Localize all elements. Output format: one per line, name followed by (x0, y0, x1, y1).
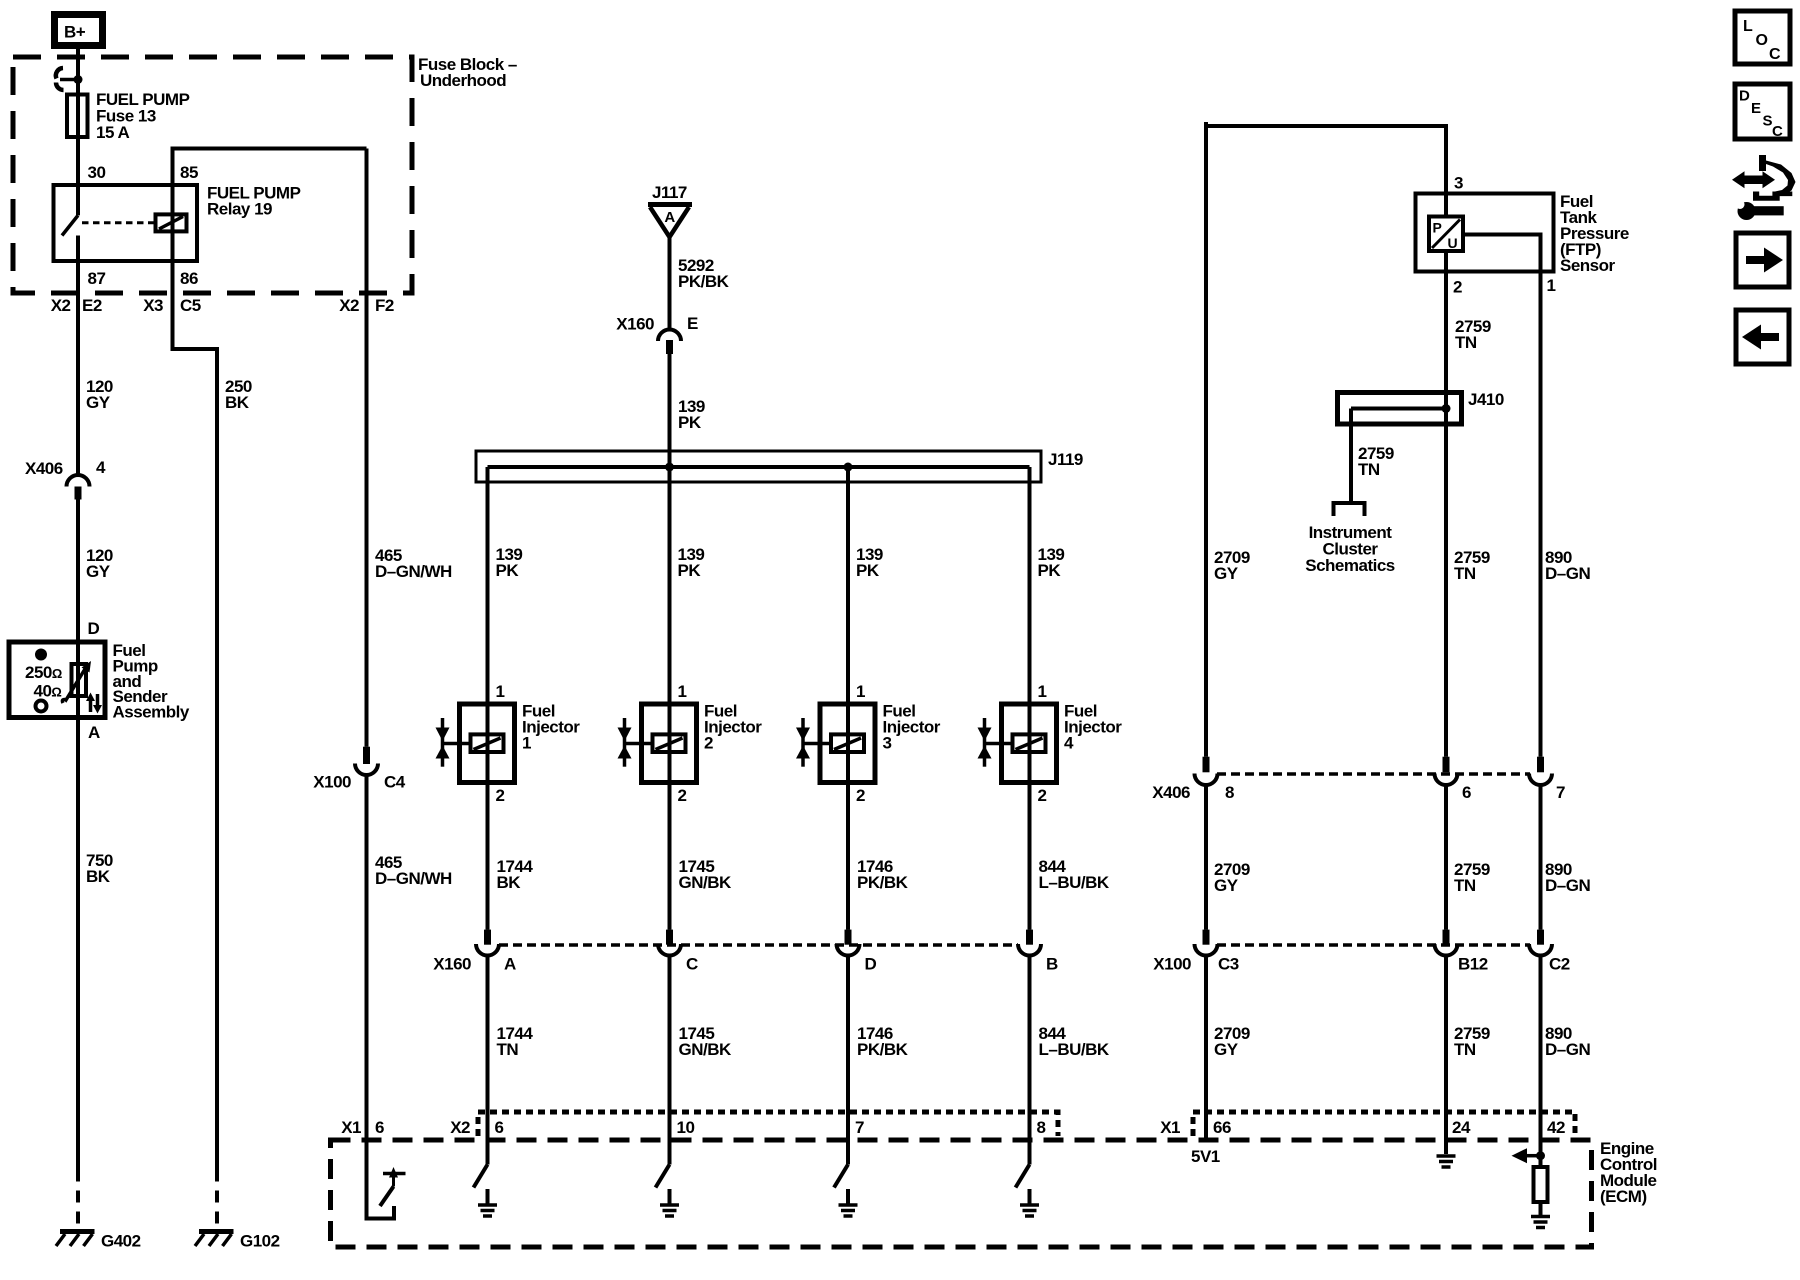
svg-text:85: 85 (180, 163, 198, 182)
FTP sensor label (1560, 192, 1629, 275)
dashed wire end to G102 (215, 1170, 219, 1230)
svg-text:L–BU/BK: L–BU/BK (1039, 1040, 1110, 1059)
svg-text:40Ω: 40Ω (34, 682, 62, 701)
svg-text:TN: TN (1455, 333, 1477, 352)
wire 139 PK: J119 to fuel injector 2 (668, 467, 672, 930)
wire label 1746 PK/BK (857, 857, 909, 892)
dashed wire end to G402 (76, 1170, 80, 1230)
svg-text:X100: X100 (1153, 955, 1191, 974)
connector X406 row inline at x=1446 (1435, 757, 1458, 785)
connector X406 row inline at x=1540.5 (1529, 757, 1552, 785)
svg-text:86: 86 (180, 269, 198, 288)
svg-text:B+: B+ (64, 23, 86, 42)
svg-text:D–GN: D–GN (1545, 876, 1590, 895)
wire label 120 GY lower (86, 546, 113, 581)
svg-text:TN: TN (1358, 460, 1380, 479)
svg-text:D: D (865, 955, 877, 974)
svg-text:C4: C4 (384, 773, 406, 792)
wire label 890 D-GN (lower) (1545, 1024, 1590, 1059)
ground G402 (56, 1232, 95, 1247)
svg-text:D: D (88, 619, 100, 638)
svg-text:J119: J119 (1048, 450, 1083, 469)
svg-text:GY: GY (1214, 1040, 1239, 1059)
svg-text:1: 1 (522, 734, 531, 753)
connector labels X2 E2 (51, 296, 102, 315)
svg-text:42: 42 (1547, 1118, 1565, 1137)
svg-text:87: 87 (88, 269, 106, 288)
svg-text:TN: TN (1454, 564, 1476, 583)
wire 1745 GN/BK: X160 to ECM pin 10 (668, 956, 672, 1165)
svg-text:8: 8 (1037, 1118, 1046, 1137)
svg-text:C: C (1772, 123, 1783, 140)
connector X160 D inline (837, 930, 860, 956)
ECM injector 4 driver ground (1020, 1189, 1039, 1216)
svg-text:Assembly: Assembly (113, 703, 190, 722)
X406 pin 4 labels (25, 458, 106, 478)
fuse block underhood dashed boundary (13, 57, 412, 293)
ECM injector 3 driver ground (839, 1189, 858, 1216)
X406 row dashed connector line (1217, 772, 1530, 776)
wire 1744 BK: injector 1 to X160 (486, 783, 490, 930)
fuel injector 4 box (1002, 704, 1057, 783)
svg-text:B: B (1046, 955, 1058, 974)
pump flow arrows (86, 693, 102, 714)
wire 844 L-BU/BK: X160 to ECM pin 8 (1028, 956, 1032, 1165)
svg-text:BK: BK (225, 393, 250, 412)
svg-text:PK: PK (856, 561, 880, 580)
fuel tank pressure sensor box (1416, 194, 1554, 272)
wire: X2 F2 down to X100 C4 (365, 149, 369, 747)
wire 844 L-BU/BK: injector 4 to X160 (1028, 783, 1032, 930)
svg-text:Schematics: Schematics (1305, 556, 1395, 575)
icon back arrow box (1736, 310, 1789, 364)
wire 1746 PK/BK: X160 to ECM pin 7 (846, 956, 850, 1165)
svg-text:X2: X2 (450, 1118, 470, 1137)
ECM X2 dotted connector bracket (478, 1112, 1058, 1136)
wire label 844 L-BU/BK (1039, 857, 1110, 892)
connector X100 row inline at x=1446 (1435, 930, 1458, 956)
svg-text:6: 6 (375, 1118, 384, 1137)
svg-text:A: A (504, 955, 516, 974)
wire: X406-4 down to pump sender pin D (76, 500, 80, 1170)
svg-text:E: E (1751, 100, 1761, 117)
svg-text:C2: C2 (1549, 955, 1570, 974)
wire 890 D-GN X100 to ECM (1539, 956, 1543, 1167)
wire label 139 PK (feed) (678, 397, 705, 432)
ECM internal ground for pin 24 (1437, 1156, 1456, 1167)
svg-text:8: 8 (1225, 783, 1234, 802)
battery feed B+ terminal (55, 15, 103, 46)
wire 139 PK: J119 to fuel injector 3 (846, 467, 850, 930)
X160 E labels (616, 314, 698, 334)
connector X160 A inline (476, 930, 499, 956)
wire label 465 D-GN/WH lower (375, 853, 452, 888)
svg-text:D–GN: D–GN (1545, 1040, 1590, 1059)
wire label 890 D-GN (mid) (1545, 860, 1590, 895)
fuel injector 2 label (704, 702, 762, 753)
svg-text:Relay 19: Relay 19 (207, 200, 272, 219)
wire label 465 D-GN/WH upper (375, 546, 452, 581)
svg-text:250Ω: 250Ω (25, 663, 62, 682)
connector labels X3 C5 (143, 296, 201, 315)
relay switch arm (62, 215, 78, 235)
svg-text:1: 1 (1547, 276, 1556, 295)
svg-text:C: C (1769, 46, 1781, 63)
splice J410 box (1338, 393, 1462, 425)
engine control module dashed boundary (331, 1140, 1592, 1247)
wire label 2759 TN (lower) (1454, 1024, 1490, 1059)
wire: 2709 GY down to X406-8 (1204, 124, 1208, 757)
svg-text:C: C (686, 955, 698, 974)
ECM X1 dotted connector bracket (1193, 1112, 1575, 1136)
wire 1745 GN/BK: injector 2 to X160 (668, 783, 672, 930)
fuse value label (96, 90, 190, 142)
svg-text:B12: B12 (1458, 955, 1488, 974)
svg-text:1: 1 (1038, 682, 1047, 701)
svg-text:X406: X406 (1152, 783, 1190, 802)
sender rheostat (62, 661, 91, 703)
svg-text:Sensor: Sensor (1560, 256, 1616, 275)
svg-text:TN: TN (497, 1040, 519, 1059)
svg-text:TN: TN (1454, 876, 1476, 895)
ECM internal signal arrow at pin 42 (1512, 1148, 1541, 1163)
svg-text:U: U (1448, 235, 1458, 251)
wire: J117 down to X160 E (668, 237, 672, 329)
connector X100 row inline at x=1206 (1195, 930, 1218, 956)
pump full-level dot (filled) (35, 649, 47, 661)
svg-text:3: 3 (883, 734, 892, 753)
svg-text:4: 4 (1064, 734, 1074, 753)
wire label 2759 TN (cluster branch) (1358, 444, 1394, 479)
svg-text:X3: X3 (143, 296, 163, 315)
junction dot J119 tap 3 (844, 463, 853, 472)
fuel injector 1 pintle valve (436, 718, 471, 767)
svg-text:3: 3 (1454, 174, 1463, 193)
wire label 1744 TN (497, 1024, 534, 1059)
svg-text:Underhood: Underhood (420, 71, 506, 90)
svg-text:X406: X406 (25, 459, 63, 478)
ECM injector 1 driver ground (478, 1189, 497, 1216)
svg-text:7: 7 (855, 1118, 864, 1137)
ECM label (1600, 1139, 1657, 1206)
svg-text:2: 2 (678, 786, 687, 805)
fuel pump and sender assembly label (113, 641, 190, 722)
wire: B+ down to fuse and relay pin 30 (76, 46, 80, 215)
fuse block label (418, 55, 517, 90)
X100 C4 labels (313, 773, 405, 792)
svg-text:GY: GY (86, 393, 111, 412)
svg-text:10: 10 (677, 1118, 695, 1137)
svg-text:2: 2 (496, 786, 505, 805)
svg-text:F2: F2 (375, 296, 394, 315)
svg-text:1: 1 (678, 682, 687, 701)
svg-text:S: S (1763, 113, 1773, 130)
svg-text:15 A: 15 A (96, 123, 130, 142)
wire 2709 GY X406 to X100 (1204, 785, 1208, 930)
splice pack J119 bus bar (488, 465, 1030, 469)
connector X100 C4 inline (355, 747, 378, 775)
ECM internal ground below resistor (1531, 1217, 1550, 1228)
svg-text:X2: X2 (51, 296, 71, 315)
wire label 1744 BK (497, 857, 534, 892)
wire 2759 TN to instrument cluster (1349, 409, 1353, 504)
svg-text:PK/BK: PK/BK (857, 1040, 909, 1059)
svg-text:GY: GY (86, 562, 111, 581)
ECM injector 2 driver ground (660, 1189, 679, 1216)
svg-text:J410: J410 (1468, 390, 1504, 409)
fuel pump and sender assembly box (9, 642, 105, 718)
X100 row dashed connector line (1217, 943, 1530, 947)
relay FUEL PUMP Relay 19 box (54, 185, 198, 261)
wire label 139 PK (branch 2) (678, 545, 705, 580)
svg-text:GN/BK: GN/BK (679, 873, 733, 892)
wire label 5292 PK/BK (678, 256, 730, 291)
relay coil (156, 214, 187, 231)
fuel injector 1 box (460, 704, 515, 783)
svg-text:PK: PK (678, 561, 702, 580)
fuel injector 3 label (883, 702, 941, 753)
svg-text:A: A (664, 209, 675, 226)
svg-text:66: 66 (1213, 1118, 1231, 1137)
fuel injector 3 coil (831, 734, 864, 752)
fuel injector 1 coil (471, 734, 504, 752)
fuel injector 2 coil (653, 734, 686, 752)
connector X406 row inline at x=1206 (1195, 757, 1218, 785)
relay label (207, 184, 301, 219)
svg-text:6: 6 (1462, 783, 1471, 802)
icon LOC box (1735, 11, 1790, 64)
icon wrench double-arrow (1732, 155, 1796, 220)
ECM injector 2 driver switch (656, 1165, 670, 1188)
wire label 2709 GY (upper) (1214, 548, 1250, 583)
wire: FTP pin 3 feed (1444, 124, 1448, 215)
wire label 750 BK (86, 851, 113, 886)
wire 1744 TN: X160 to ECM pin 6 (486, 956, 490, 1165)
ECM injector 4 driver switch (1016, 1165, 1030, 1188)
svg-text:D: D (1739, 88, 1750, 105)
svg-text:BK: BK (86, 867, 111, 886)
relay actuation dashed link (82, 221, 156, 224)
svg-text:X1: X1 (341, 1118, 361, 1137)
wire: FTP pin 2 down (1444, 251, 1448, 757)
svg-text:1: 1 (856, 682, 865, 701)
fuel injector 3 pintle valve (796, 718, 831, 767)
svg-text:5V1: 5V1 (1191, 1147, 1220, 1166)
svg-text:1: 1 (496, 682, 505, 701)
svg-text:30: 30 (88, 163, 106, 182)
svg-text:GY: GY (1214, 876, 1239, 895)
wire 139 PK: J119 to fuel injector 1 (486, 467, 490, 930)
wire: relay pin 87 down through X2 E2 to fuel pump (76, 236, 80, 476)
junction dot at ECM pin 42 (1536, 1151, 1545, 1160)
svg-text:D–GN: D–GN (1545, 564, 1590, 583)
wire label 139 PK (branch 4) (1038, 545, 1065, 580)
svg-text:2: 2 (704, 734, 713, 753)
wire label 2759 TN (FTP to J410) (1455, 317, 1491, 352)
svg-text:A: A (88, 723, 100, 742)
wire label 2709 GY (lower) (1214, 1024, 1250, 1059)
wire label 1746 PK/BK (857, 1024, 909, 1059)
splice pack J117 triangle with A (648, 205, 692, 238)
ground G102 (195, 1232, 234, 1247)
ECM relay driver switch arm and contact (380, 1167, 406, 1206)
instrument cluster schematics label (1305, 523, 1395, 575)
wire label 2709 GY (mid) (1214, 860, 1250, 895)
svg-text:2: 2 (856, 786, 865, 805)
svg-text:6: 6 (495, 1118, 504, 1137)
connector X160 C inline (658, 930, 681, 956)
svg-text:GN/BK: GN/BK (679, 1040, 733, 1059)
wire: 2709 GY top link (1206, 122, 1446, 126)
wire label 2759 TN (mid) (1454, 860, 1490, 895)
icon DESC box (1735, 84, 1790, 140)
svg-text:PK: PK (678, 413, 702, 432)
fuel injector 4 label (1064, 702, 1122, 753)
wire: FTP internal to pin 1 (1463, 235, 1541, 757)
wire label 844 L-BU/BK (1039, 1024, 1110, 1059)
wire label 139 PK (branch 1) (496, 545, 523, 580)
wire resistor to ground (1539, 1202, 1543, 1215)
svg-text:G402: G402 (101, 1232, 141, 1251)
fuse FUEL PUMP Fuse 13 15A (67, 95, 88, 138)
fuel injector 4 pintle valve (978, 718, 1013, 767)
fuel injector 2 pintle valve (618, 718, 653, 767)
svg-text:2: 2 (1038, 786, 1047, 805)
ECM internal pull resistor (1534, 1167, 1548, 1202)
X160 row dashed connector line (499, 943, 1018, 947)
svg-text:C5: C5 (180, 296, 201, 315)
wire: relay pin 85 up over to X2 F2 (173, 149, 367, 262)
svg-text:X2: X2 (339, 296, 359, 315)
svg-text:G102: G102 (240, 1232, 280, 1251)
wire 890 D-GN X406 to X100 (1539, 785, 1543, 930)
svg-text:L: L (1743, 18, 1753, 35)
wire label 890 D-GN (upper) (1545, 548, 1590, 583)
svg-text:PK/BK: PK/BK (678, 272, 730, 291)
splice pack J119 outer box (476, 451, 1041, 482)
junction dot J410 (1442, 404, 1451, 413)
wire 1746 PK/BK: injector 3 to X160 (846, 783, 850, 930)
wire 2759 TN X100 to ECM (1444, 956, 1448, 1154)
connector X160 E inline (658, 330, 681, 355)
svg-text:(ECM): (ECM) (1600, 1187, 1647, 1206)
wire: X100 C4 down into ECM X1-6, relay driver (367, 775, 395, 1219)
svg-text:X1: X1 (1160, 1118, 1180, 1137)
svg-text:2: 2 (1453, 278, 1462, 297)
svg-text:PK: PK (496, 561, 520, 580)
wire: X160 E down to splice J119 (668, 354, 672, 467)
wire label 139 PK (branch 3) (856, 545, 883, 580)
fuel injector 4 coil (1013, 734, 1046, 752)
ECM injector 1 driver switch (474, 1165, 488, 1188)
wire label 1745 GN/BK (679, 857, 733, 892)
icon forward arrow box (1736, 233, 1789, 287)
wire label 120 GY upper (86, 377, 113, 412)
svg-text:TN: TN (1454, 1040, 1476, 1059)
svg-text:X160: X160 (616, 315, 654, 334)
wire 139 PK: J119 to fuel injector 4 (1028, 467, 1032, 930)
svg-text:BK: BK (497, 873, 522, 892)
svg-text:X160: X160 (433, 955, 471, 974)
connector X406 pin 4 inline (67, 475, 90, 500)
FTP sensor transducer P/U (1429, 217, 1463, 252)
wire: relay pin 86 down jog to 250 BK (173, 261, 218, 1170)
svg-text:7: 7 (1556, 783, 1565, 802)
fuel injector 2 box (642, 704, 697, 783)
svg-text:E: E (687, 314, 698, 333)
svg-text:C3: C3 (1218, 955, 1239, 974)
fuel injector 1 label (522, 702, 580, 753)
connector labels X2 F2 (339, 296, 394, 315)
wire label 1745 GN/BK (679, 1024, 733, 1059)
ECM injector 3 driver switch (834, 1165, 848, 1188)
connector X160 B inline (1018, 930, 1041, 956)
svg-text:D–GN/WH: D–GN/WH (375, 562, 452, 581)
svg-text:E2: E2 (82, 296, 102, 315)
svg-text:J117: J117 (652, 183, 687, 202)
svg-text:L–BU/BK: L–BU/BK (1039, 873, 1110, 892)
off-page connector to instrument cluster (1334, 503, 1365, 516)
J410 internal bus (1351, 407, 1446, 411)
pump empty-level circle (open) (36, 701, 47, 712)
svg-text:GY: GY (1214, 564, 1239, 583)
wire label 2759 TN (above X406) (1454, 548, 1490, 583)
svg-text:PK: PK (1038, 561, 1062, 580)
svg-text:P: P (1433, 220, 1442, 236)
svg-text:24: 24 (1452, 1118, 1471, 1137)
svg-text:PK/BK: PK/BK (857, 873, 909, 892)
junction dot at B+ tap (74, 75, 83, 84)
junction dot J119 tap 2 (665, 463, 674, 472)
terminal clip symbol at B+ tap (56, 68, 78, 90)
wire 2759 TN X406 to X100 (1444, 785, 1448, 930)
svg-text:D–GN/WH: D–GN/WH (375, 869, 452, 888)
wire label 250 BK (225, 377, 252, 412)
svg-text:4: 4 (96, 458, 106, 477)
ECM X1 6 labels (341, 1118, 384, 1137)
svg-text:X100: X100 (313, 773, 351, 792)
connector X100 row inline at x=1540.5 (1529, 930, 1552, 956)
fuel injector 3 box (820, 704, 875, 783)
svg-text:O: O (1756, 32, 1768, 49)
wire 2709 GY X100 to ECM (1204, 956, 1208, 1140)
